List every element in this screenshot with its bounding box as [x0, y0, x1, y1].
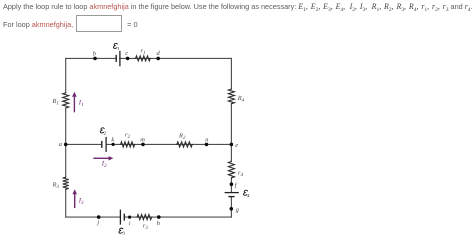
svg-text:r2: r2 — [125, 131, 131, 140]
wire right edge from r4 to battery E4 — [230, 179, 232, 193]
wire top edge left of battery E1 — [66, 57, 115, 59]
svg-text:i: i — [129, 220, 131, 227]
svg-text:I1: I1 — [78, 100, 84, 109]
resistor r4 — [228, 161, 234, 179]
resistor R4 — [228, 88, 234, 104]
battery E3 plates — [119, 210, 121, 225]
wire right edge from corner to R4 — [230, 58, 232, 88]
svg-text:n: n — [205, 137, 208, 144]
svg-text:c: c — [125, 50, 128, 57]
svg-text:d: d — [157, 50, 161, 57]
node i — [128, 215, 131, 218]
resistor R1 — [63, 92, 69, 109]
wire right edge from R4 through node e to r4 — [230, 105, 232, 161]
svg-text:I2: I2 — [101, 161, 107, 170]
wire top edge right of battery E1 — [120, 57, 232, 59]
label emf E3 (script E) — [118, 228, 125, 236]
svg-text:m: m — [140, 137, 145, 144]
node j — [97, 215, 101, 219]
label emf E1 (script E) — [113, 43, 120, 51]
node b — [93, 57, 97, 61]
node f — [230, 182, 234, 186]
svg-text:R4: R4 — [237, 95, 245, 104]
node n — [205, 143, 209, 147]
node g — [230, 207, 234, 211]
svg-text:a: a — [59, 141, 62, 148]
svg-text:R2: R2 — [178, 132, 186, 141]
answer row — [3, 15, 138, 32]
label emf E4 (script E) — [243, 190, 250, 198]
node k — [111, 143, 114, 146]
node d — [156, 57, 160, 61]
wire bottom edge right of battery E3 — [124, 216, 231, 218]
node h — [157, 215, 161, 219]
wire bottom edge left of battery E3 — [66, 216, 120, 218]
battery E2 plates — [101, 141, 103, 148]
wire left edge from R3 to bottom corner — [65, 190, 67, 217]
node c — [126, 57, 130, 61]
wire middle branch node a to battery E2 — [66, 143, 102, 145]
svg-text:e: e — [235, 142, 238, 149]
wire left edge from R1 through node a to R3 — [65, 109, 67, 177]
resistor r2 — [120, 142, 136, 147]
svg-text:r4: r4 — [238, 170, 244, 179]
current arrow I1 — [74, 96, 75, 112]
current arrow I3 — [74, 194, 75, 209]
resistor r3 — [136, 215, 152, 220]
svg-text:2: 2 — [103, 131, 106, 136]
svg-text:4: 4 — [247, 193, 250, 198]
resistor R3 — [63, 177, 69, 191]
node a — [64, 143, 68, 147]
current arrow I2 — [93, 158, 109, 159]
battery E4 plates — [225, 192, 239, 194]
svg-text:R1: R1 — [52, 98, 59, 107]
wire left edge from corner to R1 — [65, 58, 67, 92]
svg-text:R3: R3 — [52, 182, 60, 191]
svg-text:g: g — [236, 206, 240, 213]
resistor R2 — [176, 142, 193, 147]
svg-text:r1: r1 — [141, 48, 146, 57]
svg-text:k: k — [111, 137, 114, 144]
wire right edge from battery E4 to bottom corner — [230, 197, 232, 218]
wire middle branch battery E2 to node e — [106, 143, 231, 145]
instruction line 1 — [3, 2, 473, 11]
svg-text:3: 3 — [122, 231, 125, 236]
svg-text:f: f — [235, 182, 238, 189]
resistor r1 — [135, 56, 151, 61]
svg-text:I3: I3 — [78, 198, 84, 207]
node e — [230, 143, 234, 147]
svg-text:h: h — [157, 220, 160, 227]
node m — [141, 143, 145, 147]
svg-text:j: j — [96, 219, 99, 226]
label emf E2 (script E) — [100, 128, 107, 136]
battery E1 plates — [115, 55, 117, 62]
svg-text:b: b — [93, 50, 96, 57]
svg-text:r3: r3 — [143, 223, 149, 232]
